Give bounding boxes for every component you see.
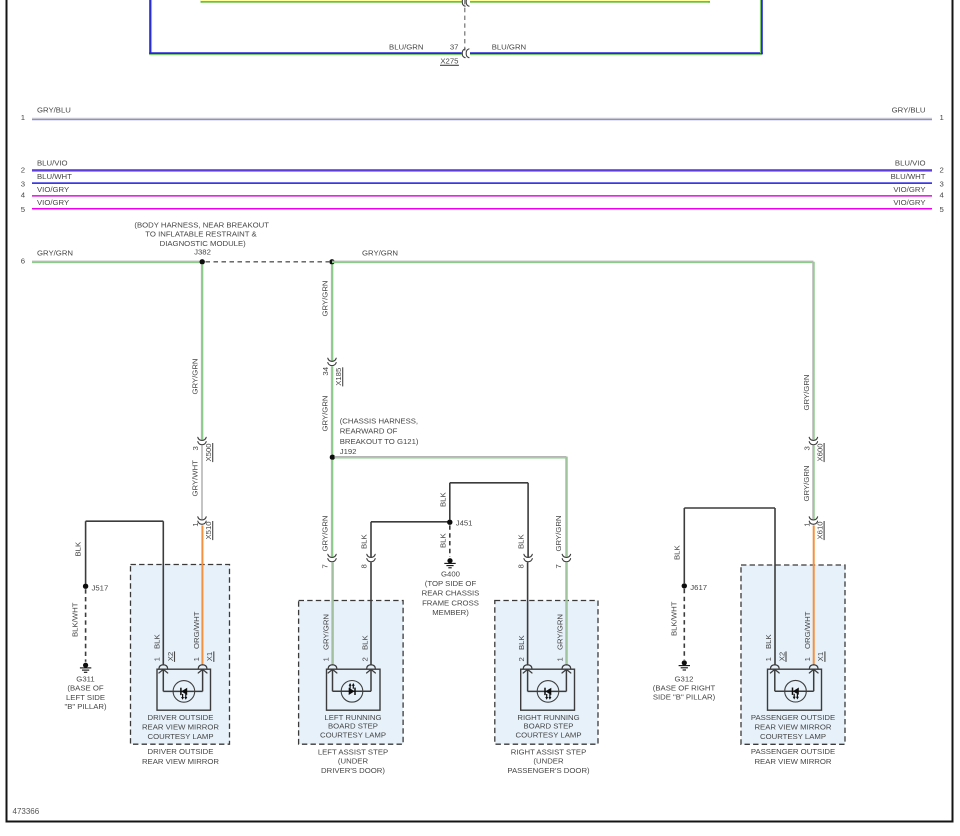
wire GRY/GRN right RB lamp feed <box>565 562 567 664</box>
svg-text:COURTESY LAMP: COURTESY LAMP <box>515 730 581 739</box>
connector X500 pin 3 <box>198 437 206 445</box>
wire GRY/GRN inside right RB lamp <box>565 669 567 691</box>
svg-text:BLU/GRN: BLU/GRN <box>492 42 526 51</box>
svg-text:2: 2 <box>21 166 25 175</box>
svg-text:GRY/BLU: GRY/BLU <box>37 105 71 114</box>
lamp LED right running board courtesy lamp <box>537 681 559 703</box>
svg-text:DRIVER'S DOOR): DRIVER'S DOOR) <box>321 766 385 775</box>
svg-text:GRY/GRN: GRY/GRN <box>321 515 330 551</box>
svg-text:TO INFLATABLE RESTRAINT &: TO INFLATABLE RESTRAINT & <box>145 230 257 239</box>
svg-text:GRY/BLU: GRY/BLU <box>892 105 926 114</box>
internal lamp wire passenger <box>775 690 814 692</box>
connector X275 dashed boundary line <box>464 0 466 51</box>
svg-text:"B" PILLAR): "B" PILLAR) <box>64 702 107 711</box>
svg-text:J382: J382 <box>194 247 211 256</box>
connector right RB pin 8 <box>524 554 532 562</box>
svg-text:RIGHT RUNNING: RIGHT RUNNING <box>517 713 579 722</box>
svg-text:VIO/GRY: VIO/GRY <box>37 185 69 194</box>
wire BLK right RB lamp feed <box>527 562 529 664</box>
ground G311 <box>80 663 91 673</box>
svg-text:GRY/WHT: GRY/WHT <box>191 460 200 497</box>
svg-text:BLK: BLK <box>439 492 448 507</box>
svg-text:G312: G312 <box>675 675 694 684</box>
svg-text:BLK: BLK <box>439 533 448 548</box>
wire BLK inside driver lamp <box>162 669 164 691</box>
wire GRY/GRN left RB drop <box>330 460 332 558</box>
svg-text:4: 4 <box>21 191 26 200</box>
svg-text:BLU/GRN: BLU/GRN <box>389 42 423 51</box>
pin X2 driver (arrow+socket) <box>159 665 168 673</box>
wire 6 dashed harness segment J382 to branch <box>206 261 330 263</box>
svg-text:X600: X600 <box>815 443 824 461</box>
connector right RB pin 7 <box>562 554 570 562</box>
wire ORG/WHT inside driver lamp <box>202 669 204 691</box>
svg-text:GRY/GRN: GRY/GRN <box>802 374 811 410</box>
svg-text:J617: J617 <box>690 583 707 592</box>
svg-text:1: 1 <box>556 657 565 661</box>
svg-text:5: 5 <box>940 205 944 214</box>
pin 2 right RB (arrow+socket) <box>523 665 532 673</box>
svg-text:(BASE OF: (BASE OF <box>67 684 103 693</box>
svg-text:BLK: BLK <box>517 534 526 549</box>
wire GRY/GRN center drop lower <box>330 366 332 454</box>
svg-text:3: 3 <box>940 179 944 188</box>
svg-text:(UNDER: (UNDER <box>533 757 564 766</box>
svg-text:GRY/GRN: GRY/GRN <box>191 358 200 394</box>
connector X275 pin 37 upper half (on GRN/YEL wire) <box>462 0 469 6</box>
svg-text:REAR VIEW MIRROR: REAR VIEW MIRROR <box>754 722 831 731</box>
component LEFT RUNNING BOARD STEP COURTESY LAMP box <box>327 669 381 710</box>
connector X610 pin 1 <box>809 517 817 525</box>
wire 4 VIO/GRY full-width <box>32 195 932 197</box>
svg-text:BOARD STEP: BOARD STEP <box>524 722 574 731</box>
svg-text:(UNDER: (UNDER <box>338 757 369 766</box>
svg-text:BLU/WHT: BLU/WHT <box>891 172 926 181</box>
svg-text:REAR VIEW MIRROR: REAR VIEW MIRROR <box>142 722 219 731</box>
svg-text:3: 3 <box>21 179 25 188</box>
svg-text:GRY/GRN: GRY/GRN <box>802 465 811 501</box>
pin X2 passenger (arrow+socket) <box>770 665 779 673</box>
svg-text:RIGHT ASSIST STEP: RIGHT ASSIST STEP <box>511 748 587 757</box>
svg-text:BLK: BLK <box>360 635 369 650</box>
junction J192 <box>330 455 335 460</box>
svg-text:X2: X2 <box>777 652 786 661</box>
svg-text:1: 1 <box>192 657 201 661</box>
connector X275 lower half (on BLU/GRN wire) <box>462 49 469 58</box>
svg-text:VIO/GRY: VIO/GRY <box>893 185 925 194</box>
connector left RB pin 7 <box>328 554 336 562</box>
connector X185 pin 34 <box>328 358 336 366</box>
wire BLK inside passenger lamp <box>774 669 776 691</box>
svg-text:X275: X275 <box>440 57 458 66</box>
svg-text:BLK: BLK <box>360 534 369 549</box>
svg-text:BLK: BLK <box>517 635 526 650</box>
junction J382 <box>200 259 205 264</box>
component box DRIVER OUTSIDE REAR VIEW MIRROR (dashed) <box>131 565 230 745</box>
svg-text:J192: J192 <box>340 447 357 456</box>
svg-text:473366: 473366 <box>13 807 40 816</box>
svg-text:COURTESY LAMP: COURTESY LAMP <box>320 730 386 739</box>
svg-text:BLU/WHT: BLU/WHT <box>37 172 72 181</box>
connector X600 pin 3 <box>809 437 817 445</box>
wire BLK passenger lamp drop <box>774 508 776 665</box>
connector X510 pin 1 <box>198 517 206 525</box>
svg-text:1: 1 <box>21 113 25 122</box>
svg-text:VIO/GRY: VIO/GRY <box>893 198 925 207</box>
internal lamp wire right RB <box>528 690 567 692</box>
wire BLK left RB horizontal <box>371 521 450 523</box>
svg-text:(TOP SIDE OF: (TOP SIDE OF <box>425 579 477 588</box>
svg-text:34: 34 <box>321 366 330 375</box>
svg-text:(CHASSIS HARNESS,: (CHASSIS HARNESS, <box>340 416 418 425</box>
svg-text:G400: G400 <box>441 569 460 578</box>
ground G400 <box>444 558 455 568</box>
wire BLK to J617 <box>683 508 685 583</box>
svg-text:X1: X1 <box>816 652 825 661</box>
svg-text:2: 2 <box>940 166 944 175</box>
svg-text:BLK: BLK <box>74 541 83 556</box>
wire 6 GRY/GRN left segment <box>32 260 202 262</box>
svg-text:X185: X185 <box>334 368 343 386</box>
svg-text:7: 7 <box>321 564 330 568</box>
svg-text:1: 1 <box>764 657 773 661</box>
pin X1 driver (arrow+socket) <box>198 665 207 673</box>
junction J617 <box>682 583 687 588</box>
svg-text:ORG/WHT: ORG/WHT <box>803 611 812 649</box>
svg-text:BLU/VIO: BLU/VIO <box>895 158 926 167</box>
wire BLK driver horizontal <box>86 520 164 522</box>
ground G312 <box>679 660 690 670</box>
svg-text:FRAME CROSS: FRAME CROSS <box>422 598 479 607</box>
svg-text:ORG/WHT: ORG/WHT <box>192 611 201 649</box>
wire BLK center top horizontal <box>450 482 528 484</box>
svg-text:PASSENGER OUTSIDE: PASSENGER OUTSIDE <box>751 747 835 756</box>
svg-text:37: 37 <box>450 42 459 51</box>
pin X1 passenger (arrow+socket) <box>809 665 818 673</box>
wire GRY/GRN passenger mid segment <box>812 445 814 519</box>
svg-text:X510: X510 <box>204 521 213 539</box>
wire ORG/WHT driver mirror lamp feed <box>201 525 203 664</box>
svg-text:REAR CHASSIS: REAR CHASSIS <box>422 589 480 598</box>
svg-text:BLK/WHT: BLK/WHT <box>71 602 80 637</box>
pin 1 left RB (arrow+socket) <box>328 665 337 673</box>
junction J451 <box>447 520 452 525</box>
wire BLK right RB drop <box>527 483 529 558</box>
svg-text:GRY/GRN: GRY/GRN <box>554 515 563 551</box>
svg-text:LEFT ASSIST STEP: LEFT ASSIST STEP <box>318 748 388 757</box>
svg-text:MEMBER): MEMBER) <box>432 608 469 617</box>
wire GRY/GRN driver mirror drop <box>200 264 202 440</box>
wire BLK to J517 <box>85 521 87 583</box>
svg-text:X2: X2 <box>166 652 175 661</box>
component box LEFT ASSIST STEP (dashed) <box>299 601 404 745</box>
svg-text:1: 1 <box>191 522 200 526</box>
lamp LED driver mirror courtesy lamp <box>173 681 195 703</box>
wire BLK left RB drop <box>370 522 372 558</box>
wire BLK driver lamp drop <box>162 521 164 664</box>
wire BLU/GRN left vertical <box>149 0 151 54</box>
svg-text:J517: J517 <box>92 583 109 592</box>
svg-text:8: 8 <box>360 564 369 568</box>
svg-text:SIDE "B" PILLAR): SIDE "B" PILLAR) <box>653 693 716 702</box>
svg-text:LEFT SIDE: LEFT SIDE <box>66 693 105 702</box>
connector left RB pin 8 <box>367 554 375 562</box>
svg-text:GRY/GRN: GRY/GRN <box>556 614 565 650</box>
svg-text:PASSENGER'S DOOR): PASSENGER'S DOOR) <box>507 766 590 775</box>
svg-text:1: 1 <box>802 522 811 526</box>
component DRIVER OUTSIDE REAR VIEW MIRROR COURTESY LAMP box <box>157 669 211 710</box>
svg-text:BOARD STEP: BOARD STEP <box>328 722 378 731</box>
svg-text:4: 4 <box>940 191 945 200</box>
component RIGHT RUNNING BOARD STEP COURTESY LAMP box <box>521 669 575 710</box>
svg-text:3: 3 <box>802 446 811 450</box>
wire BLK/WHT dashed to G312 <box>683 589 685 660</box>
svg-text:PASSENGER OUTSIDE: PASSENGER OUTSIDE <box>751 713 835 722</box>
wire BLK/dashed J451 to G400 <box>449 525 451 557</box>
wire GRY/GRN inside left RB lamp <box>332 669 334 691</box>
wire GRY/GRN J192 to right lamp <box>335 456 567 458</box>
wire GRY/GRN center drop upper <box>330 264 332 361</box>
svg-text:DRIVER OUTSIDE: DRIVER OUTSIDE <box>148 747 214 756</box>
wire GRY/GRN passenger drop from wire 6 <box>812 262 814 441</box>
svg-text:LEFT RUNNING: LEFT RUNNING <box>324 713 381 722</box>
svg-text:1: 1 <box>322 657 331 661</box>
svg-text:BLK: BLK <box>672 545 681 560</box>
pin 2 left RB (arrow+socket) <box>367 665 376 673</box>
wire BLK inside left RB lamp <box>370 669 372 691</box>
svg-text:COURTESY LAMP: COURTESY LAMP <box>760 732 826 741</box>
svg-text:1: 1 <box>803 657 812 661</box>
wire GRN/YEL top U-segment <box>201 0 203 3</box>
svg-text:GRY/GRN: GRY/GRN <box>322 614 331 650</box>
svg-text:BLK: BLK <box>764 634 773 649</box>
wire 5 VIO/GRY full-width <box>32 208 932 210</box>
wire BLK/WHT dashed to G311 <box>85 589 87 662</box>
svg-text:COURTESY LAMP: COURTESY LAMP <box>147 732 213 741</box>
wire BLU/GRN horizontal right of X275 <box>470 52 763 54</box>
internal lamp wire left RB <box>333 690 372 692</box>
svg-text:BLK/WHT: BLK/WHT <box>669 601 678 636</box>
wire 6 GRY/GRN right segment <box>332 260 813 262</box>
pin 1 right RB (arrow+socket) <box>562 665 571 673</box>
svg-text:2: 2 <box>517 657 526 661</box>
svg-text:7: 7 <box>554 564 563 568</box>
svg-text:VIO/GRY: VIO/GRY <box>37 198 69 207</box>
svg-text:X500: X500 <box>204 443 213 461</box>
svg-text:BLK: BLK <box>153 634 162 649</box>
svg-text:1: 1 <box>153 657 162 661</box>
svg-text:BREAKOUT TO G121): BREAKOUT TO G121) <box>340 437 419 446</box>
svg-text:X1: X1 <box>205 652 214 661</box>
svg-text:GRY/GRN: GRY/GRN <box>321 280 330 316</box>
lamp LED passenger mirror courtesy lamp <box>785 680 807 702</box>
svg-text:2: 2 <box>360 657 369 661</box>
svg-text:X610: X610 <box>815 521 824 539</box>
component PASSENGER OUTSIDE REAR VIEW MIRROR COURTESY LAMP box <box>768 669 822 710</box>
wire BLK left RB lamp feed <box>370 562 372 664</box>
wire GRY/GRN left RB lamp feed <box>331 562 333 664</box>
svg-text:REARWARD OF: REARWARD OF <box>340 427 398 436</box>
wire GRY/WHT driver segment <box>201 445 203 519</box>
wire BLU/GRN horizontal left of X275 <box>149 52 462 54</box>
svg-text:3: 3 <box>191 446 200 450</box>
svg-text:REAR VIEW MIRROR: REAR VIEW MIRROR <box>142 757 219 766</box>
svg-text:6: 6 <box>21 256 25 265</box>
svg-text:(BASE OF RIGHT: (BASE OF RIGHT <box>653 684 716 693</box>
svg-text:5: 5 <box>21 205 25 214</box>
wire BLK down to J451 <box>449 483 451 520</box>
svg-text:BLU/VIO: BLU/VIO <box>37 158 68 167</box>
svg-text:1: 1 <box>940 113 944 122</box>
wire ORG/WHT inside passenger lamp <box>813 669 815 691</box>
wire ORG/WHT passenger mirror lamp feed <box>813 525 815 664</box>
wire 2 BLU/VIO full-width <box>32 169 932 171</box>
svg-text:GRY/GRN: GRY/GRN <box>37 249 73 258</box>
svg-text:GRY/GRN: GRY/GRN <box>321 395 330 431</box>
wire BLK inside right RB lamp <box>527 669 529 691</box>
svg-text:J451: J451 <box>456 518 473 527</box>
wire BLK passenger horizontal <box>684 507 775 509</box>
internal lamp wire driver <box>163 690 202 692</box>
component box RIGHT ASSIST STEP (dashed) <box>495 601 598 745</box>
junction wire6 branch node <box>329 259 334 264</box>
wire BLU/GRN right vertical <box>761 0 763 54</box>
svg-text:G311: G311 <box>76 675 94 684</box>
svg-text:REAR VIEW MIRROR: REAR VIEW MIRROR <box>754 757 831 766</box>
lamp LED left running board courtesy lamp <box>341 681 363 703</box>
svg-text:(BODY HARNESS, NEAR BREAKOUT: (BODY HARNESS, NEAR BREAKOUT <box>134 220 269 229</box>
junction J517 <box>83 584 88 589</box>
svg-text:DRIVER OUTSIDE: DRIVER OUTSIDE <box>148 713 214 722</box>
wire 3 BLU/WHT full-width <box>32 182 932 184</box>
component box PASSENGER OUTSIDE REAR VIEW MIRROR (dashed) <box>741 565 845 744</box>
wire 1 GRY/BLU full-width <box>32 117 932 119</box>
svg-text:GRY/GRN: GRY/GRN <box>362 249 398 258</box>
svg-text:8: 8 <box>517 564 526 568</box>
